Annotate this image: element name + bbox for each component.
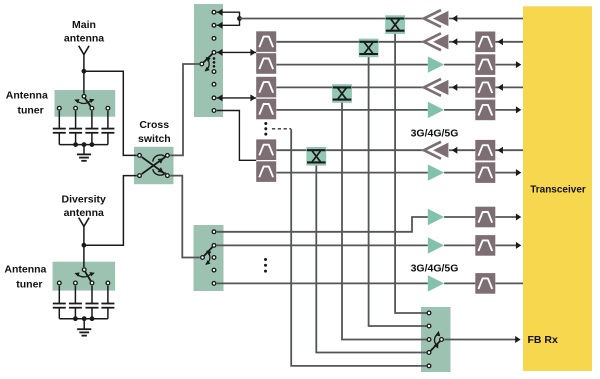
wire diversity junction to cross switch port BL [84,176,137,246]
SW3 terminal T2 [427,324,431,328]
wire SW1 T8 to filter pair 3 [217,111,257,161]
wire rail to ground [83,145,85,155]
antenna tuner (main) terminal 1 [57,106,61,110]
wire row7 amp to filter [444,172,475,174]
capacitor C14 [101,129,114,133]
arrow row2 into filter [498,38,503,45]
arrow row4 into amp [452,84,457,91]
SW2 terminal U1 [212,230,216,234]
capacitor C23 [86,304,99,308]
ground (main tuner) [77,154,91,160]
cross switch port BL [138,174,142,178]
SW1 rotation arc [203,55,211,73]
SW1 terminal T5 [212,70,216,74]
SW2 rotation arc [204,249,212,267]
svg-text:3G/4G/5G: 3G/4G/5G [411,127,459,139]
mid ellipsis dots [264,122,267,136]
svg-text:Transceiver: Transceiver [530,184,586,195]
node rail junction E [82,316,87,321]
arrow row9 into transceiver [516,242,521,249]
arrow row7 into transceiver [516,169,521,176]
node main antenna junction [82,69,87,74]
wire coupler DC2 drop to FB switch T2 [369,54,428,326]
LNA amplifier (green, row 7) [428,164,444,180]
capacitor C24 [101,304,114,308]
3G/4G/5G label (upper) [411,127,459,139]
wire SW1 T2 merge [217,19,240,26]
wire SW2 U1 to row8 [217,217,428,232]
arrow into filter pair 1 seam [250,49,255,56]
SW3 output port [440,338,444,342]
SW3 rotation arc [434,330,441,349]
SW1 terminal T3 [212,37,216,41]
wire capacitor C14 to rail [107,133,109,145]
wire cross switch TR to upper mux pivot [170,64,199,155]
wire capacitor C13 to rail [91,133,93,145]
antenna tuner (main) terminal 3 [90,106,94,110]
antenna tuner (main) terminal 2 [74,106,78,110]
antenna ANT2 (diversity) [79,218,89,246]
bandpass filter FL10 [475,273,495,294]
wire tuner2 terminal 2 to capacitor [74,286,76,304]
svg-text:antenna: antenna [64,207,104,219]
wire row4 amp to filter [449,86,475,88]
wire tuner1 terminal 1 to capacitor [58,111,60,128]
antenna switch SW2 block [194,225,224,291]
3G/4G/5G label (lower) [411,263,459,275]
wire SW1 T7 to filter pair 2 [217,97,257,99]
cross switch port TR [166,154,170,158]
wire row8 amp to filter [444,216,475,218]
cross switch diagonal TL-BR [142,157,166,174]
arrow into SW1 T2 [217,22,222,29]
transceiver U1 block [523,6,592,371]
SW3 terminal T3 [427,338,431,342]
antenna switch SW1 block [194,4,223,117]
wire main antenna to tuner [83,71,85,93]
antenna tuner (main) block [55,90,116,117]
node rail junction D [73,316,78,321]
arrow FB Rx into transceiver [515,336,520,343]
wire FB output to transceiver [444,339,517,341]
SW1 pivot [200,62,204,66]
bandpass filter FL2 [475,32,495,53]
wire tuner2 ground rail [59,318,108,320]
wire SW1 T4 to filter pair 1 [217,51,257,53]
wire SW2 U2 to row9 [217,244,428,246]
node diversity antenna junction [82,243,87,248]
wire tuner2 terminal 1 to capacitor [58,286,60,304]
SW2 switch arm [203,245,215,257]
svg-text:FB Rx: FB Rx [528,334,558,346]
arrow row2 into amp [452,38,457,45]
wire tuner1 terminal 2 to capacitor [75,111,77,128]
coupler DC1 [385,15,405,34]
wire SW2 U5 to row10 [217,282,428,284]
bandpass filter FL8 [475,207,495,228]
svg-text:Antenna: Antenna [4,264,46,276]
capacitor C11 [53,129,66,133]
SW3 terminal T5 [427,364,431,368]
wire coupler DC3 drop to FB switch T3 [342,100,427,340]
arrow row3 into transceiver [516,61,521,68]
SW1 terminal T2 [212,23,216,27]
cross switch label line 1 [139,119,169,131]
wire coupler DC1 drop to FB switch T1 [395,31,427,313]
antenna tuner (div) label line 1 [4,264,46,276]
wire row1 mux junction to amp [240,18,424,20]
antenna tuner (main) label line 2 [17,104,43,116]
LNA amplifier (green, row 10) [428,275,444,291]
antenna tuner (div) block [53,262,116,291]
arrow into SW1 T7 [217,94,222,101]
arrow row5 into transceiver [516,106,521,113]
bandpass filter FL3 [475,54,495,75]
duplexer filter pair 3 top [256,139,276,160]
wire capacitor C23 to rail [91,308,93,319]
transceiver label [530,184,586,195]
bandpass filter FL9 [475,235,495,256]
LNA amplifier (green, row 5) [428,102,444,118]
svg-text:Main: Main [72,19,96,31]
antenna tuner (div) terminal 1 [57,281,61,285]
wire row10 filter to transceiver [495,282,523,284]
wire row6 filter to transceiver [495,149,523,151]
FB Rx label [528,334,558,346]
SW3 switch arm [429,340,442,353]
LNA amplifier (green, row 3) [428,56,444,72]
antenna tuner (div) rotation arc [74,271,96,277]
svg-text:Diversity: Diversity [62,194,107,206]
node merge junction [237,16,242,21]
wire row5 filter to transceiver [495,109,519,111]
cross switch label line 2 [138,133,171,145]
wire row6 amp to filter [449,149,475,151]
SW2 ellipsis dots [264,258,267,273]
PA amplifier (grey, row 1) [424,10,449,27]
LNA amplifier (green, row 9) [428,237,444,253]
coupler DC2 [359,39,379,58]
wire diversity antenna to tuner [83,245,85,267]
wire tuner1 terminal 3 to capacitor [91,111,93,128]
svg-text:Cross: Cross [139,119,169,131]
PA amplifier (grey, row 2) [424,33,449,50]
SW2 terminal U5 [212,282,216,286]
wire row4 filter to transceiver [495,86,523,88]
duplexer filter pair 3 bottom [256,161,276,182]
arrow row8 into transceiver [516,214,521,221]
antenna tuner (div) terminal 4 [106,281,110,285]
cross switch arrow to TR [158,156,166,164]
wire cross switch BR to lower mux pivot [170,176,200,258]
cross switch rotation arc [153,155,166,175]
antenna tuner (main) terminal 4 [106,106,110,110]
SW1 switch arm [202,52,214,64]
cross switch diagonal BL-TR [142,157,166,174]
cross switch port TL [138,154,142,158]
node rail junction A [73,142,78,147]
coupler DC3 [332,84,352,103]
bandpass filter FL6 [475,140,495,161]
duplexer filter pair 1 top [256,31,276,52]
SW1 terminal T7 [212,96,216,100]
diversity antenna label line 1 [62,194,107,206]
wire rail to ground 2 [83,319,85,329]
wire capacitor C11 to rail [58,133,60,145]
arrow row6 into amp [452,147,457,154]
wire tuner2 terminal 3 to capacitor [91,286,93,304]
diversity antenna label line 2 [64,207,104,219]
wire tuner1 terminal 4 to capacitor [107,111,109,128]
SW2 pivot [201,256,205,260]
arrow into SW1 T4 [217,49,222,56]
wire row7 filter to amp [276,172,427,174]
PA amplifier (grey, row 6) [424,142,449,159]
wire row7 filter to transceiver [495,172,519,174]
wire main antenna junction to cross switch port TL [84,71,137,155]
svg-text:Antenna: Antenna [6,90,48,102]
antenna tuner (div) rotary switch arm [84,270,92,283]
wire row3 filter to amp [276,64,427,66]
SW2 terminal U2 [212,244,216,248]
antenna tuner (main) pivot [82,94,86,98]
arrow into SW1 T1 [217,9,222,16]
node rail junction C [90,142,95,147]
wire row9 filter to transceiver [495,244,519,246]
cross switch port BR [166,174,170,178]
ground (div tuner) [77,329,91,335]
antenna tuner (main) label line 1 [6,90,48,102]
wire row4 filter to amp [276,86,424,88]
wire row6 filter to amp [276,149,424,151]
SW3 terminal T4 [427,351,431,355]
SW1 terminal T8 [212,109,216,113]
wire tuner2 terminal 4 to capacitor [107,286,109,304]
wire row8 filter to transceiver [495,216,519,218]
antenna tuner (div) pivot [82,268,86,272]
capacitor C12 [69,129,82,133]
capacitor C21 [53,304,66,308]
coupler DC4 [306,147,326,166]
svg-text:3G/4G/5G: 3G/4G/5G [411,263,459,275]
SW1 terminal T6 [212,82,216,86]
main antenna label line 1 [72,19,96,31]
antenna ANT1 (main) [79,46,89,71]
wire row3 filter to transceiver [495,64,519,66]
bandpass filter FL7 [475,162,495,183]
wire row5 amp to filter [444,109,475,111]
wire dashed drop to FB switch T5 [291,129,427,366]
arrow row1 into amp [452,15,457,22]
SW1 terminal T1 [212,10,216,14]
cross switch S1 block [134,147,174,184]
arrow row4 into filter [498,84,503,91]
wire tuner1 ground rail [59,144,108,146]
wire row2 filter to transceiver [495,41,523,43]
bandpass filter FL4 [475,77,495,98]
antenna tuner (main) rotation arc [73,97,95,103]
antenna tuner (div) terminal 3 [90,281,94,285]
SW1 terminal T4 [212,51,216,55]
svg-text:antenna: antenna [64,33,104,45]
node rail junction B [82,142,87,147]
wire row2 filter to amp [276,41,424,43]
node rail junction F [90,316,95,321]
duplexer filter pair 1 bottom [256,53,276,74]
antenna tuner (div) terminal 2 [74,281,78,285]
SW2 terminal U3 [212,256,216,260]
bandpass filter FL5 [475,100,495,121]
antenna tuner (main) rotary switch arm [84,97,92,108]
wire row1 amp to transceiver [449,18,523,20]
main antenna label line 2 [64,33,104,45]
capacitor C22 [69,304,82,308]
wire row9 amp to filter [444,244,475,246]
SW2 terminal U4 [212,268,216,272]
wire row5 filter to amp [276,109,427,111]
wire SW1 T1 merge [217,12,240,18]
wire row3 amp to filter [444,64,475,66]
FB switch SW3 block [421,307,451,372]
LNA amplifier (green, row 8) [428,209,444,225]
svg-text:tuner: tuner [16,278,42,290]
SW3 terminal T1 [427,311,431,315]
dashed continuation wire [272,128,291,130]
arrow row6 into filter [498,147,503,154]
duplexer filter pair 2 top [256,77,276,98]
wire coupler DC4 drop to FB switch T4 [316,162,427,352]
duplexer filter pair 2 bottom [256,99,276,120]
capacitor C13 [85,129,98,133]
arrow into filter pair 2 seam [250,94,255,101]
PA amplifier (grey, row 4) [424,79,449,96]
wire row2 amp to filter [449,41,475,43]
svg-text:tuner: tuner [17,104,43,116]
svg-text:switch: switch [138,133,171,145]
cross switch arrow to BR [158,167,166,175]
wire capacitor C21 to rail [58,308,60,319]
wire capacitor C12 to rail [75,133,77,145]
antenna tuner (div) label line 2 [16,278,42,290]
wire row10 amp to filter [444,282,475,284]
wire capacitor C24 to rail [107,308,109,319]
SW1 ellipsis dots [213,57,216,68]
wire capacitor C22 to rail [74,308,76,319]
